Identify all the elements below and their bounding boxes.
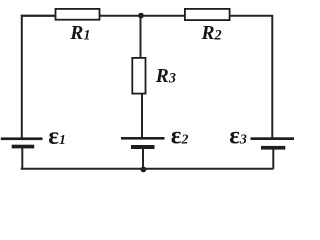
battery E3 short plate (261, 146, 285, 150)
svg-text:ε2: ε2 (171, 122, 189, 149)
svg-text:ε1: ε1 (48, 123, 66, 150)
battery E2 short plate (131, 145, 155, 149)
wire top junction down to R3 (140, 16, 142, 58)
svg-text:R2: R2 (201, 23, 222, 44)
battery E2 long plate (121, 137, 165, 140)
svg-text:ε3: ε3 (229, 123, 247, 150)
wire left side (top-left corner down to E1) (22, 16, 56, 139)
battery E1 long plate (1, 137, 43, 140)
wire E3 to bottom rail (272, 149, 274, 168)
resistor R1 (56, 9, 100, 20)
wire top-left segment (21, 15, 56, 17)
node A (top junction) (138, 13, 144, 19)
svg-text:R1: R1 (69, 23, 90, 44)
wire E2 to bottom junction (142, 149, 144, 170)
wire R2 to top-right corner and down right side (231, 16, 273, 139)
wire top junction to R2 (141, 15, 185, 17)
resistor R3 (132, 58, 145, 94)
wire R3 to E2 (141, 94, 143, 139)
battery E1 short plate (12, 145, 35, 149)
bottom rail wire (21, 168, 274, 170)
svg-text:R3: R3 (155, 66, 176, 87)
wire E1 to bottom rail (21, 148, 23, 170)
battery E3 long plate (251, 137, 295, 140)
resistor R2 (185, 9, 230, 20)
wire R1 to top junction (100, 15, 142, 17)
node B (bottom junction) (141, 167, 147, 173)
